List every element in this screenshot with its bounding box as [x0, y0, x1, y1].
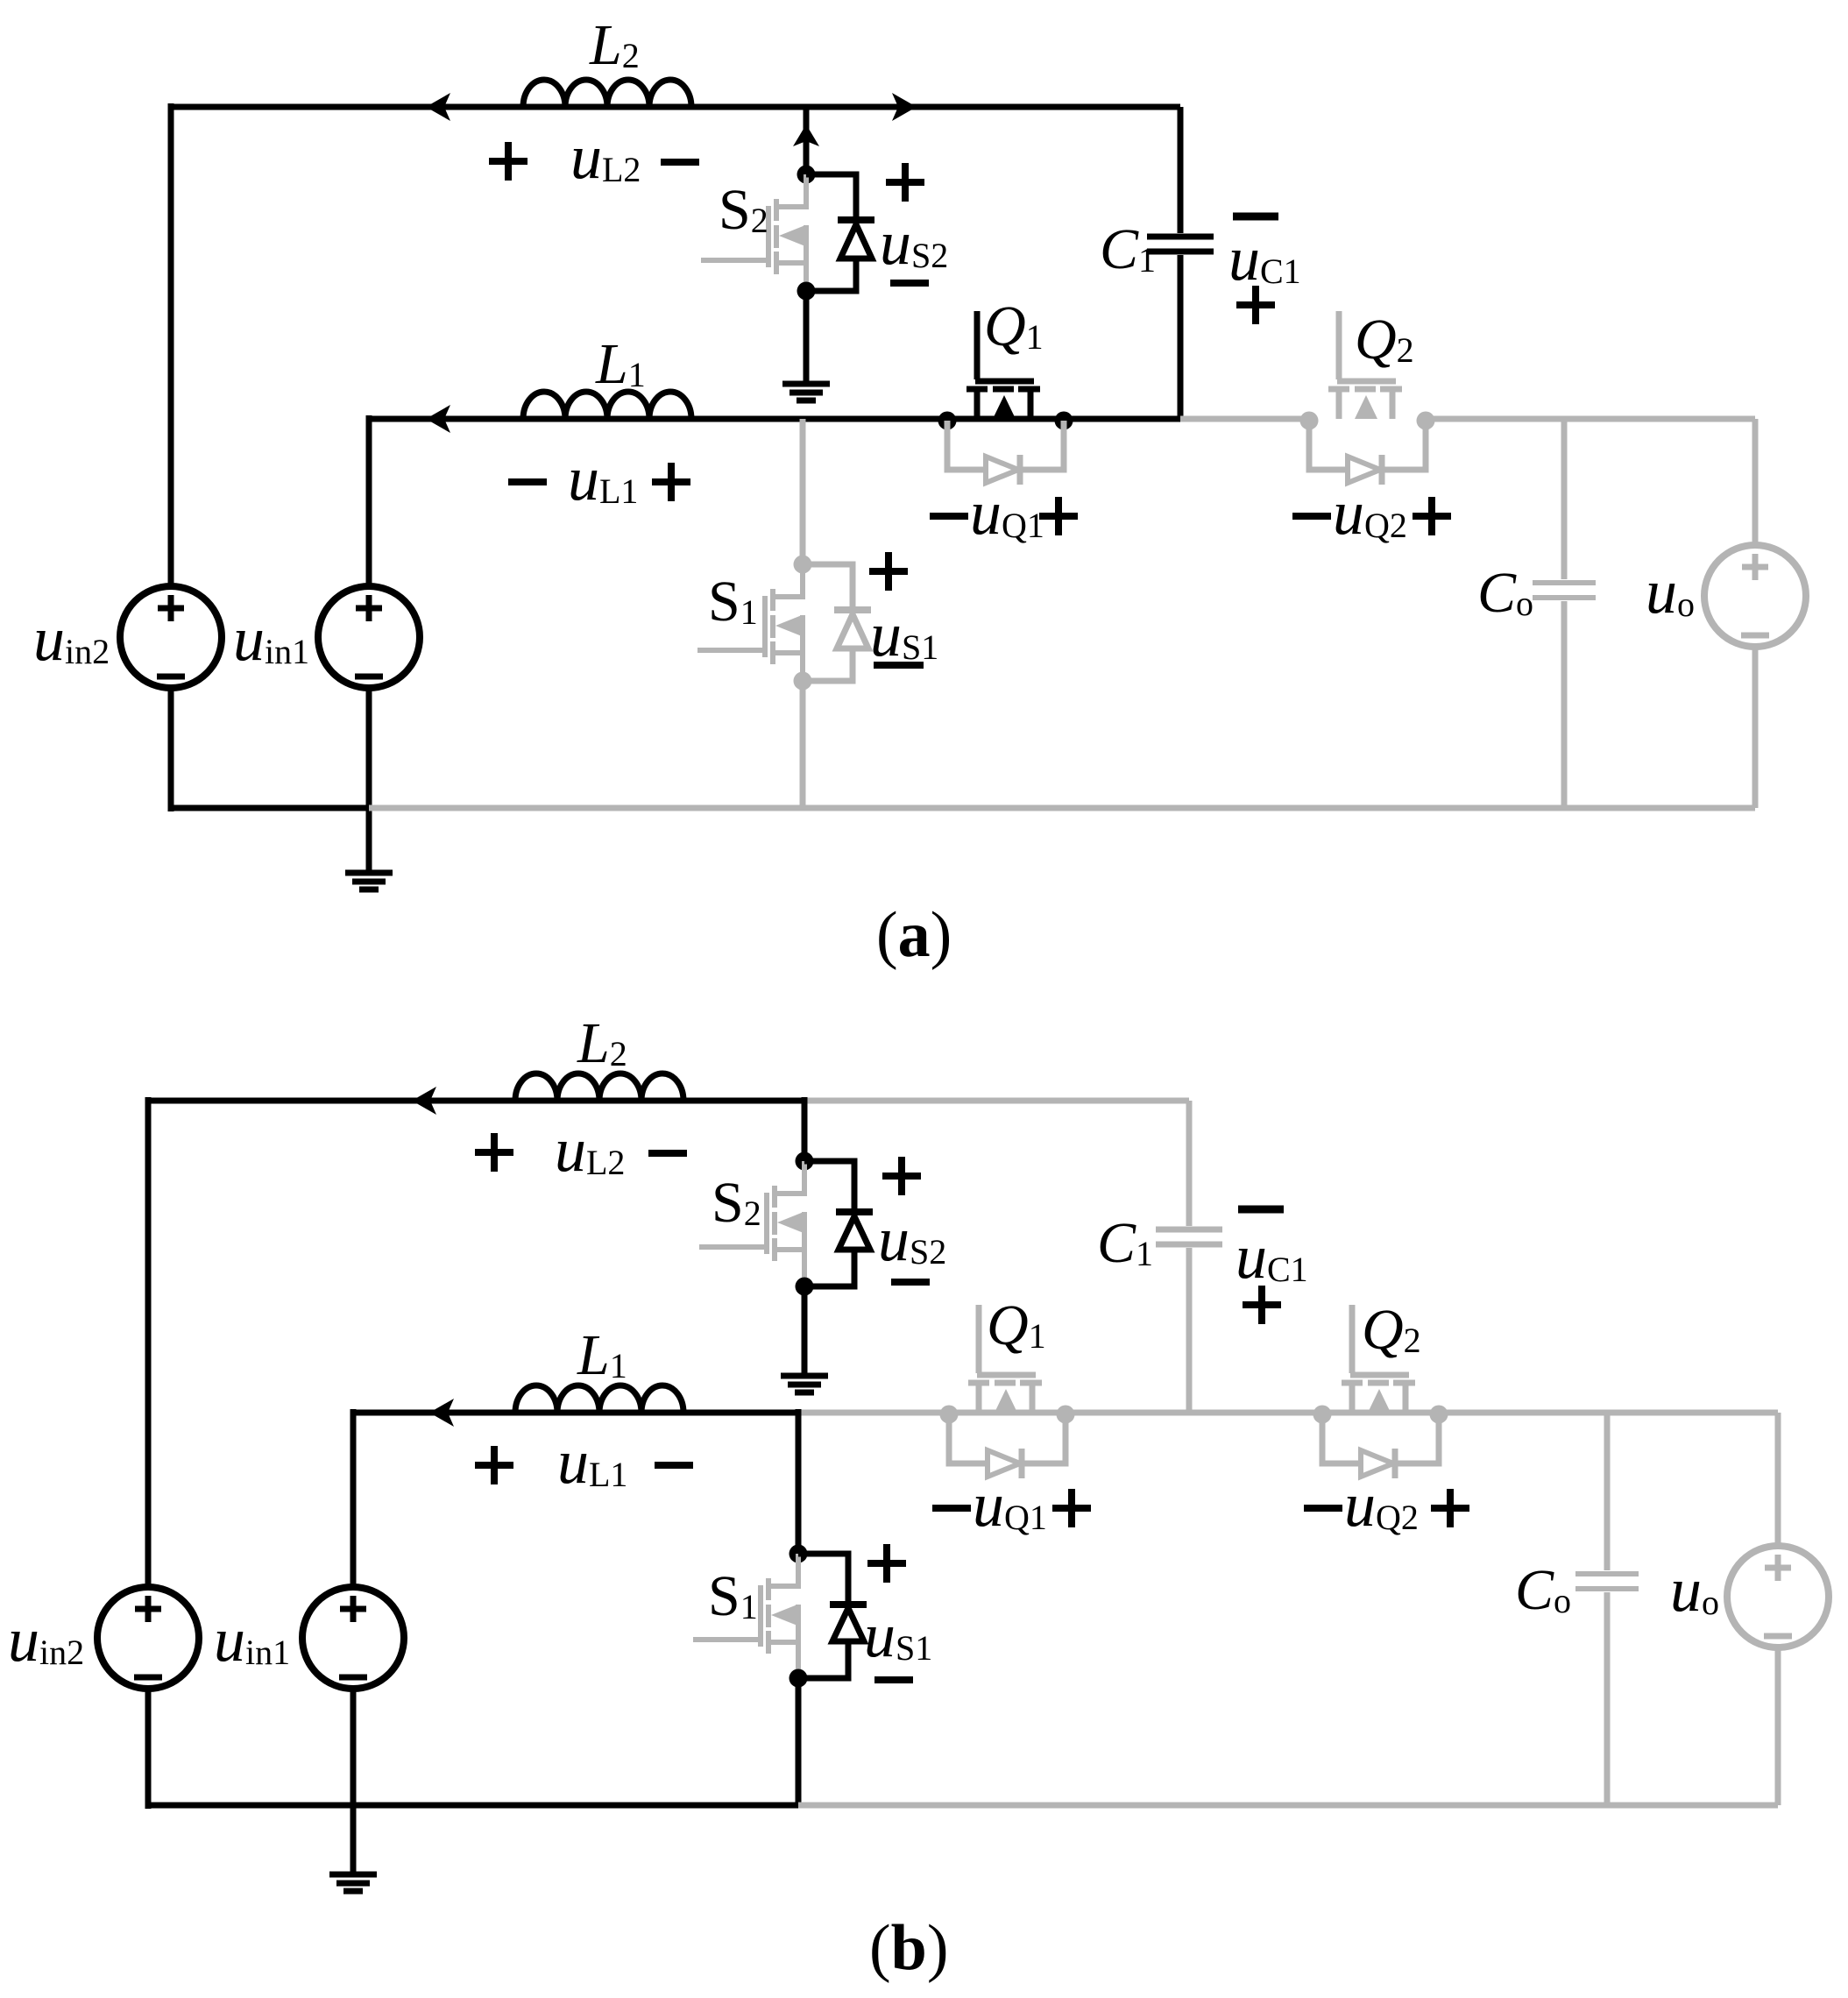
- label +uL1- (b): [475, 1427, 693, 1497]
- label -uQ1+ (a): [930, 478, 1078, 548]
- wire uin2 bottom lead (b): [145, 1688, 152, 1809]
- node Q2 left (a): [1300, 412, 1319, 430]
- label uin2 (b): [8, 1605, 84, 1675]
- wire rail gray S1 to Q1 (b): [798, 1410, 1778, 1416]
- label Q2 (b): [1362, 1298, 1421, 1362]
- node S2 source (b): [796, 1278, 814, 1296]
- wire bottom rail gray (a): [369, 805, 1755, 811]
- ground main (a): [345, 873, 393, 889]
- node S2 drain (b): [796, 1152, 814, 1171]
- label uin1 (a): [233, 604, 309, 674]
- wire bottom rail black (b): [145, 1803, 798, 1809]
- wire Co branch (b): [1575, 1413, 1639, 1805]
- wire bottom rail gray (b): [798, 1803, 1778, 1809]
- transistor Q2 (b): [1342, 1305, 1415, 1413]
- label C1 (a): [1100, 217, 1156, 281]
- inductor L1 (a): [523, 332, 691, 419]
- wire left rail (a): [168, 103, 174, 587]
- inductor L2 (b): [515, 1011, 683, 1101]
- wire left rail (b): [145, 1097, 152, 1590]
- wire uo branch top (a): [1752, 419, 1759, 547]
- label Q2 (a): [1355, 308, 1414, 372]
- wire rail gray Q2 to output (a): [1426, 416, 1755, 422]
- label uin2 (a): [33, 604, 110, 674]
- wire Co branch (a): [1533, 419, 1596, 808]
- voltage source uo (a): [1704, 545, 1806, 647]
- label Q1 (a): [984, 294, 1044, 358]
- node Q2 left (b): [1313, 1406, 1332, 1424]
- wire L1 corner down to uin1 (a): [366, 415, 372, 587]
- node S1 source (a): [794, 672, 812, 691]
- body diode of Q1 (b): [949, 1414, 1066, 1478]
- label +uS2- (a): [880, 163, 948, 283]
- transistor S2 (a): [701, 174, 806, 291]
- wire uo branch top (b): [1775, 1413, 1781, 1548]
- wire L1 corner down to uin1 (b): [350, 1409, 357, 1590]
- node S2 drain (a): [797, 166, 816, 184]
- diode of S2 (a): [806, 174, 874, 291]
- caption (a): [876, 899, 952, 971]
- transistor Q1 (b): [968, 1305, 1042, 1413]
- wire S2 to ground (b): [802, 1286, 808, 1376]
- diode of S1 (a): [803, 564, 871, 681]
- label S2 (a): [719, 178, 768, 242]
- wire top rail black (b): [148, 1098, 804, 1104]
- transistor S2 (b): [699, 1161, 804, 1286]
- label -uQ2+ (a): [1292, 478, 1451, 548]
- svg-text:(a): (a): [876, 899, 952, 971]
- node Q1 left (b): [940, 1406, 959, 1424]
- inductor L1 (b): [515, 1323, 683, 1413]
- wire S1 drop (a): [800, 419, 806, 564]
- wire uo branch bottom (a): [1752, 647, 1759, 808]
- wire S2 drop from top rail (a): [804, 107, 810, 177]
- label Q1 (b): [987, 1293, 1046, 1357]
- svg-text:(b): (b): [869, 1912, 948, 1984]
- label -uQ2+ (b): [1304, 1470, 1469, 1540]
- wire S1 drop black (b): [796, 1409, 802, 1554]
- label -uC1+ (b): [1236, 1209, 1308, 1324]
- body diode of Q1 (a): [947, 421, 1064, 485]
- label +uL2- (b): [475, 1115, 687, 1185]
- node Q1 left (a): [938, 412, 957, 430]
- wire top rail gray (b): [804, 1098, 1189, 1104]
- label -uC1+ (a): [1228, 216, 1301, 324]
- label S1 (b): [708, 1564, 758, 1628]
- capacitor C1 (a): [1147, 107, 1214, 419]
- node S1 drain (a): [794, 556, 812, 574]
- label uo (b): [1670, 1555, 1719, 1625]
- label Co (a): [1477, 561, 1533, 625]
- wire L1 rail black (b): [353, 1410, 798, 1416]
- wire ground lead (b): [350, 1805, 357, 1874]
- inductor L2 (a): [523, 13, 691, 107]
- voltage source uin2 (b): [97, 1587, 199, 1689]
- body diode of Q2 (a): [1309, 421, 1426, 485]
- voltage source uin1 (a): [318, 586, 420, 688]
- transistor S1 (a): [697, 564, 803, 681]
- wire bottom rail black (a): [168, 805, 369, 811]
- voltage source uin1 (b): [302, 1587, 404, 1689]
- current arrow right toward C1 (a): [892, 93, 917, 121]
- transistor Q1 (a): [966, 311, 1040, 419]
- caption (b): [869, 1912, 948, 1984]
- label S1 (a): [708, 570, 758, 634]
- ground under S2 (b): [781, 1376, 828, 1392]
- wire uo branch bottom (b): [1775, 1646, 1781, 1805]
- node Q1 right (a): [1055, 412, 1073, 430]
- label +uS1- (a): [869, 552, 938, 670]
- wire S1 to bottom rail (a): [800, 681, 806, 808]
- node Q2 right (a): [1417, 412, 1435, 430]
- wire ground lead (a): [366, 808, 372, 873]
- current arrow left on L2 rail (a): [426, 93, 450, 121]
- wire S2 to ground (a): [804, 291, 810, 384]
- node Q2 right (b): [1430, 1406, 1448, 1424]
- wire rail gray C1 to Q2 (a): [1180, 416, 1309, 422]
- label S2 (b): [712, 1171, 761, 1235]
- node S1 drain (b): [789, 1545, 808, 1563]
- voltage source uin2 (a): [120, 586, 222, 688]
- diode of S1 (b): [798, 1554, 867, 1678]
- label C1 (b): [1097, 1211, 1153, 1275]
- node Q1 right (b): [1057, 1406, 1075, 1424]
- body diode of Q2 (b): [1322, 1414, 1439, 1478]
- node S1 source (b): [789, 1669, 808, 1688]
- label +uS2- (b): [878, 1157, 946, 1282]
- current arrow left on L1 rail (b): [429, 1399, 454, 1427]
- current arrow left on L2 rail (b): [412, 1087, 436, 1115]
- wire S1 to bottom rail (b): [796, 1678, 802, 1805]
- node S2 source (a): [797, 282, 816, 301]
- label uo (a): [1646, 556, 1695, 627]
- voltage source uo (b): [1727, 1546, 1829, 1647]
- current arrow left on L1 rail (a): [426, 405, 450, 433]
- label -uL1+ (a): [508, 443, 690, 514]
- diode of S2 (b): [804, 1161, 873, 1286]
- wire uin1 to bottom rail (b): [350, 1688, 357, 1809]
- label uin1 (b): [214, 1605, 290, 1675]
- transistor S1 (b): [693, 1554, 798, 1678]
- wire uin2 bottom lead (a): [168, 687, 174, 811]
- capacitor C1 (b): [1156, 1101, 1222, 1413]
- label -uQ1+ (b): [932, 1470, 1091, 1540]
- transistor Q2 (a): [1328, 311, 1402, 419]
- label +uS1- (b): [864, 1544, 932, 1680]
- label Co (b): [1515, 1558, 1571, 1622]
- wire L1 rail (a): [369, 416, 1180, 422]
- label +uL2- (a): [489, 122, 699, 192]
- ground under S2 (a): [782, 384, 830, 400]
- wire S2 drop (b): [802, 1097, 808, 1161]
- current arrow up at S2 branch (a): [793, 124, 819, 146]
- ground main (b): [329, 1874, 377, 1891]
- wire top rail (a): [171, 104, 1180, 110]
- wire uin1 to bottom rail (a): [366, 687, 372, 811]
